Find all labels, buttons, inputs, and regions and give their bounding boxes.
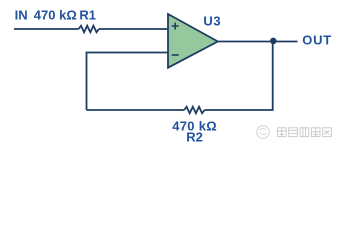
wire bottom left segment <box>87 109 185 111</box>
pin + (non-inverting input) <box>172 23 179 30</box>
resistor R1 <box>79 26 99 33</box>
node junction dot <box>270 38 277 45</box>
wire feedback: minus input left segment <box>87 53 169 111</box>
svg-text:IN470 kΩR1: IN470 kΩR1 <box>15 7 96 22</box>
resistor R2 <box>184 107 204 114</box>
svg-text:R2: R2 <box>186 129 203 144</box>
svg-text:OUT: OUT <box>302 33 332 48</box>
op-amp U3 triangle <box>168 14 218 68</box>
wire bottom right segment up to output node <box>205 42 273 111</box>
pin - (inverting input) <box>172 54 179 56</box>
wire IN to R1 <box>14 28 79 30</box>
wire output <box>218 41 298 43</box>
watermark logo circle <box>257 126 270 139</box>
wire R1 to op-amp + input <box>99 28 168 30</box>
watermark text 面包板社区 <box>278 128 332 137</box>
svg-text:U3: U3 <box>203 14 221 29</box>
